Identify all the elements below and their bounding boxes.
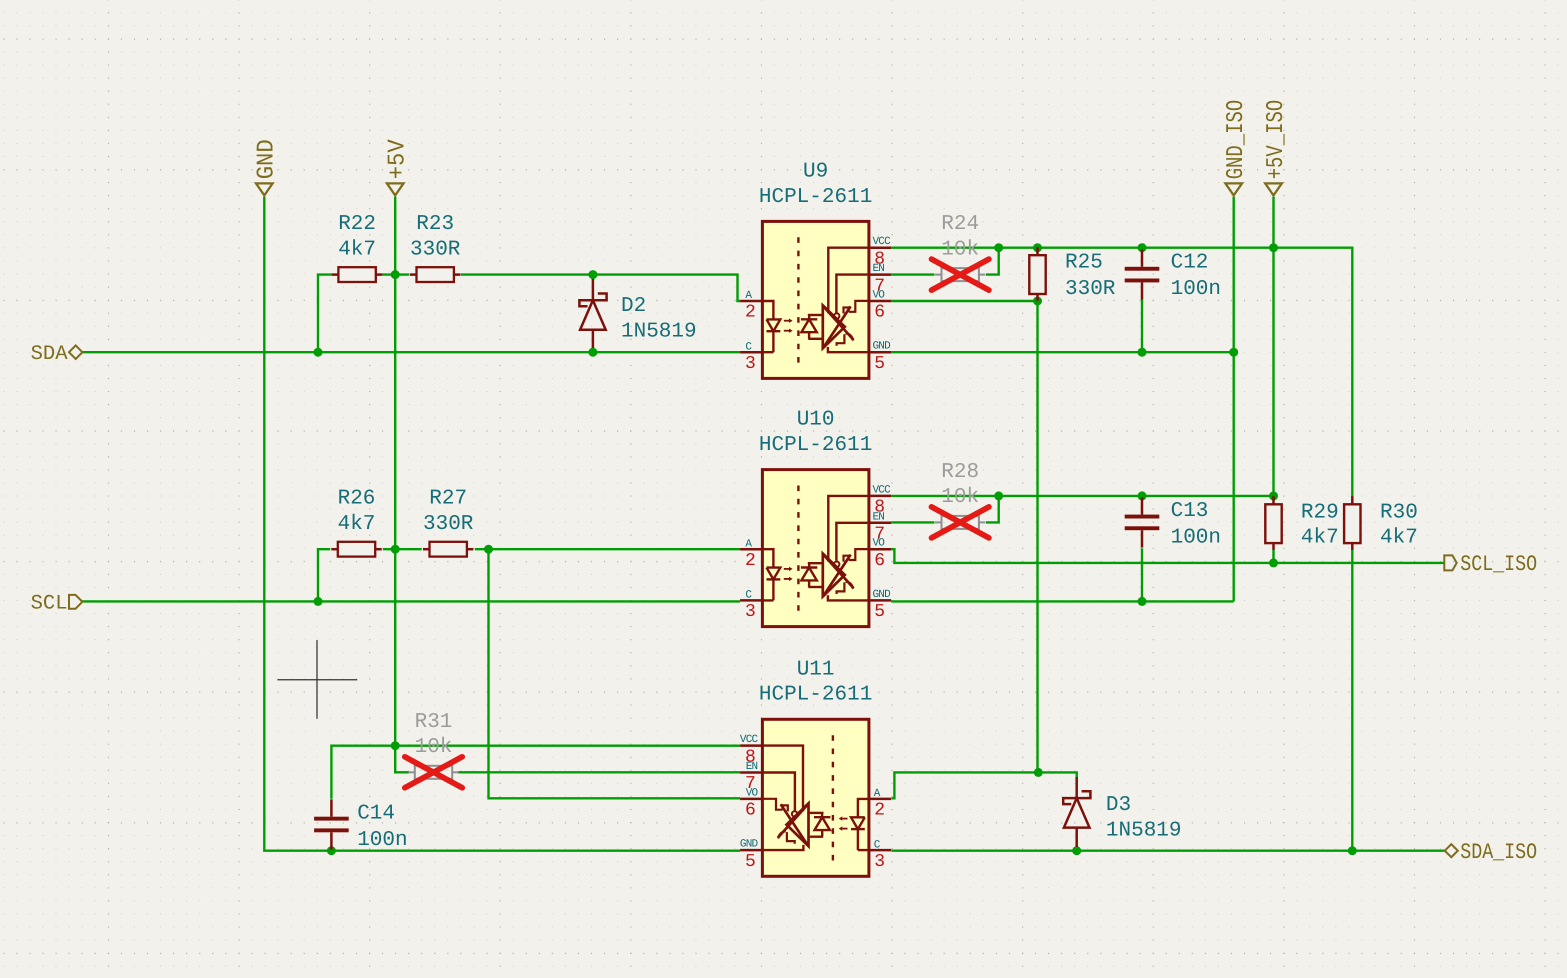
svg-text:VO: VO	[873, 290, 886, 302]
svg-text:10k: 10k	[941, 486, 979, 509]
svg-text:GND_ISO: GND_ISO	[1223, 100, 1250, 180]
svg-text:R27: R27	[429, 488, 467, 511]
svg-text:R26: R26	[338, 488, 376, 511]
svg-text:3: 3	[745, 602, 756, 622]
svg-text:HCPL-2611: HCPL-2611	[759, 186, 872, 209]
svg-text:GND: GND	[873, 341, 892, 353]
svg-text:A: A	[745, 290, 752, 302]
svg-text:4k7: 4k7	[1380, 526, 1418, 549]
svg-text:C14: C14	[357, 803, 395, 826]
svg-text:2: 2	[874, 801, 885, 821]
svg-text:100n: 100n	[357, 829, 407, 852]
svg-text:SCL_ISO: SCL_ISO	[1460, 552, 1537, 577]
svg-text:D2: D2	[621, 295, 646, 318]
svg-text:VO: VO	[873, 538, 886, 550]
svg-text:A: A	[874, 788, 881, 800]
svg-text:VCC: VCC	[740, 734, 759, 746]
svg-text:R22: R22	[338, 213, 376, 236]
svg-text:SDA: SDA	[31, 343, 69, 366]
svg-text:6: 6	[874, 551, 885, 571]
svg-text:5: 5	[874, 602, 885, 622]
svg-text:1N5819: 1N5819	[621, 320, 697, 343]
svg-text:5: 5	[874, 354, 885, 374]
svg-text:GND: GND	[873, 589, 892, 601]
svg-text:U11: U11	[797, 658, 835, 681]
svg-text:6: 6	[745, 801, 756, 821]
svg-text:10k: 10k	[415, 736, 453, 759]
svg-text:R30: R30	[1380, 501, 1418, 524]
svg-text:C13: C13	[1171, 500, 1209, 523]
svg-text:GND: GND	[254, 139, 281, 179]
svg-text:R29: R29	[1301, 501, 1339, 524]
svg-text:EN: EN	[746, 761, 758, 773]
svg-text:4k7: 4k7	[338, 238, 376, 261]
svg-text:100n: 100n	[1171, 278, 1221, 301]
svg-text:VO: VO	[746, 787, 759, 799]
svg-text:A: A	[745, 538, 752, 550]
svg-text:330R: 330R	[423, 513, 474, 536]
svg-text:HCPL-2611: HCPL-2611	[759, 684, 872, 707]
svg-text:GND: GND	[740, 839, 759, 851]
svg-text:R31: R31	[415, 711, 453, 734]
svg-text:100n: 100n	[1171, 526, 1221, 549]
svg-text:U10: U10	[797, 409, 835, 432]
svg-text:10k: 10k	[941, 238, 979, 261]
svg-text:330R: 330R	[410, 238, 461, 261]
svg-text:2: 2	[745, 551, 756, 571]
svg-text:D3: D3	[1106, 794, 1131, 817]
svg-text:C: C	[874, 839, 881, 851]
svg-text:4k7: 4k7	[338, 513, 376, 536]
svg-text:U9: U9	[803, 160, 828, 183]
svg-text:5: 5	[745, 852, 756, 872]
svg-text:R28: R28	[941, 461, 979, 484]
svg-text:R23: R23	[416, 213, 454, 236]
svg-text:+5V_ISO: +5V_ISO	[1263, 100, 1290, 180]
svg-text:2: 2	[745, 303, 756, 323]
svg-text:3: 3	[874, 852, 885, 872]
svg-text:VCC: VCC	[873, 236, 892, 248]
svg-text:R25: R25	[1065, 252, 1103, 275]
svg-text:+5V: +5V	[385, 139, 412, 180]
svg-text:HCPL-2611: HCPL-2611	[759, 434, 872, 457]
svg-text:EN: EN	[873, 263, 885, 275]
svg-text:SCL: SCL	[31, 592, 68, 615]
svg-text:4k7: 4k7	[1301, 526, 1339, 549]
svg-text:SDA_ISO: SDA_ISO	[1460, 840, 1537, 865]
svg-text:C: C	[745, 341, 752, 353]
svg-text:330R: 330R	[1065, 278, 1116, 301]
svg-text:3: 3	[745, 354, 756, 374]
svg-text:R24: R24	[941, 213, 979, 236]
svg-text:EN: EN	[873, 511, 885, 523]
svg-text:1N5819: 1N5819	[1106, 819, 1182, 842]
svg-text:C12: C12	[1171, 252, 1209, 275]
svg-text:6: 6	[874, 303, 885, 323]
svg-text:VCC: VCC	[873, 484, 892, 496]
svg-text:C: C	[745, 590, 752, 602]
